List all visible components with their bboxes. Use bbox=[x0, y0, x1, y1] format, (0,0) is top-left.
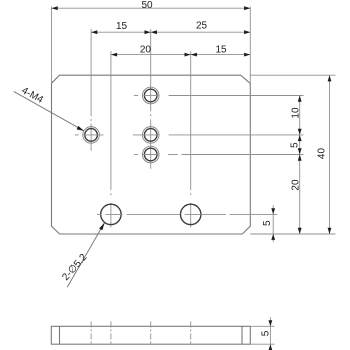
extension/centerline column holes H2-H4 (x=150.7) bbox=[150, 29, 152, 169]
extension/centerline column hole H1 (x=91.1) bbox=[90, 29, 92, 151]
centerline y=154.5 through H4 extending to right dims bbox=[134, 154, 304, 156]
centerline y=214.4 through H5 H6 extending to small 5 dim bbox=[97, 213, 277, 215]
dimension 5 (small, bottom holes to bottom edge) bbox=[262, 205, 275, 242]
side view centerline x=110.9 bbox=[110, 322, 112, 346]
dimension 50 (top row) bbox=[52, 0, 251, 11]
svg-text:5: 5 bbox=[289, 142, 300, 148]
hole H2 M4 top (25,5) bbox=[142, 87, 159, 104]
side view centerline x=150.7 bbox=[150, 322, 152, 346]
svg-text:40: 40 bbox=[316, 148, 327, 160]
hole H3 M4 middle (25,15) bbox=[142, 127, 159, 144]
extension/centerline column hole H6 (x=190.7) bbox=[190, 51, 192, 227]
plate outline (top view, chamfered corners) bbox=[52, 75, 251, 234]
svg-text:15: 15 bbox=[116, 21, 128, 32]
side view extension lines for thickness dim bbox=[250, 326, 274, 344]
dimension 40 (far right) bbox=[316, 75, 331, 234]
dimension 5 (right side, 134.9-154.5) bbox=[289, 135, 301, 155]
centerline y=134.9 through H1 and H3 extending to right dims bbox=[75, 134, 304, 136]
hole H1 M4 left (10,15) bbox=[83, 127, 100, 144]
side view centerline x=91.1 bbox=[90, 322, 92, 346]
dimension 15 (third row right) bbox=[191, 44, 251, 56]
dimension 20 (third row left) bbox=[111, 44, 191, 56]
svg-text:15: 15 bbox=[215, 44, 227, 55]
hole H6 diameter 5.2 bottom-right (35,35) bbox=[181, 204, 201, 224]
leader 4-M4 bbox=[14, 85, 84, 131]
dimension 15 (second row left) bbox=[91, 21, 151, 34]
hole H4 M4 (25,20) bbox=[142, 146, 159, 163]
svg-text:5: 5 bbox=[262, 220, 273, 226]
dimension 20 (right side, 154.5-234) bbox=[290, 155, 301, 235]
svg-text:20: 20 bbox=[290, 179, 301, 191]
leader 2-diameter5.2 bbox=[60, 223, 104, 288]
extension line bottom edge to right dims (y=234) bbox=[250, 233, 335, 235]
side view left chamfer line bbox=[59, 326, 61, 344]
extension line right (x=250.3, merges with right edge) bbox=[249, 7, 251, 84]
dimension 5 (plate thickness, side view) bbox=[260, 317, 272, 350]
svg-text:50: 50 bbox=[141, 0, 153, 11]
dimension 10 (right side) bbox=[290, 96, 301, 135]
hole H5 diameter 5.2 bottom-left (15,35) bbox=[101, 204, 121, 224]
extension line top edge to 40-dim (y=75.2) bbox=[250, 74, 335, 76]
extension/centerline column hole H5 (x=110.9) bbox=[110, 51, 112, 227]
svg-text:10: 10 bbox=[290, 107, 301, 119]
svg-text:20: 20 bbox=[140, 44, 152, 55]
svg-text:25: 25 bbox=[196, 21, 208, 32]
side view right chamfer line bbox=[241, 326, 243, 344]
centerline y=95.5 through H2 extending to right dims bbox=[134, 95, 304, 97]
extension line left (x=51.5, merges with left edge) bbox=[51, 7, 53, 84]
side view plate rectangle bbox=[51, 326, 250, 344]
dimension 25 (second row right) bbox=[151, 21, 251, 34]
side view centerline x=190.7 bbox=[190, 322, 192, 346]
svg-text:5: 5 bbox=[260, 330, 271, 336]
